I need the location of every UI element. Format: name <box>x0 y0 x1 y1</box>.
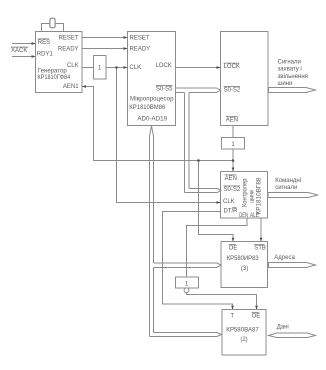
output arrow: data (double headed) <box>269 333 316 338</box>
svg-text:AEN: AEN <box>225 176 237 182</box>
svg-text:Дані: Дані <box>277 325 289 331</box>
output arrow: address <box>269 263 316 268</box>
output arrow: bus arbitration signals <box>269 88 316 93</box>
svg-text:DEN: DEN <box>239 213 248 219</box>
bus arrowhead into controller S0-S2 <box>217 188 221 192</box>
crystal wire right <box>56 24 64 32</box>
arrowhead controller AEN (down) <box>232 168 235 172</box>
wire CLK generator to buffer box <box>82 67 94 69</box>
svg-text:КР1810ВМ86: КР1810ВМ86 <box>129 105 166 111</box>
svg-text:ОЕ: ОЕ <box>252 313 261 319</box>
wire AEN net horizontal <box>199 160 234 162</box>
arrowhead controller CLK <box>217 201 221 204</box>
inverter box 1 (DEN) <box>176 277 199 288</box>
bus AD vertical <box>149 136 151 337</box>
bus bottom to transceiver <box>150 336 218 338</box>
svg-text:1: 1 <box>231 142 235 148</box>
bus controller block KR1810VG88 <box>221 172 268 219</box>
svg-text:RESET: RESET <box>59 36 79 42</box>
junction dot CLK <box>115 66 117 68</box>
wire arbiter AEN down to inverter <box>232 126 234 138</box>
svg-text:Сигнали: Сигнали <box>278 60 301 66</box>
arrowhead CPU CLK <box>124 66 128 69</box>
output arrow: command signals <box>268 193 318 198</box>
bus S0 branch vertical <box>184 93 186 193</box>
svg-text:1: 1 <box>185 281 189 287</box>
svg-text:RES: RES <box>38 40 50 46</box>
arrowhead CPU RESET <box>124 36 128 39</box>
wire inverter bubble to transceiver OE <box>187 293 257 310</box>
wire AEN1 from generator right down to AEN net <box>82 87 199 161</box>
arrowhead AEN1 (points left into generator) <box>82 85 86 88</box>
arrowhead transceiver OE (down) <box>255 306 258 310</box>
arrowhead latch OE (down) <box>232 238 235 242</box>
bus S0 branch horizontal into controller <box>189 187 217 189</box>
bus branch to latch <box>154 262 218 264</box>
svg-text:Адреса: Адреса <box>274 255 295 261</box>
svg-text:STB: STB <box>254 245 266 251</box>
inverter box 1 (arbiter AEN) <box>222 138 245 150</box>
svg-text:КР1810ВГ88: КР1810ВГ88 <box>256 177 262 215</box>
bus S0-S5 CPU to arbiter: band <box>176 87 217 89</box>
wire XACK upper stub to RES <box>12 43 36 45</box>
generator block KR1810GF84 <box>36 32 83 93</box>
svg-text:(3): (3) <box>241 266 248 272</box>
svg-text:шини: шини <box>278 81 293 87</box>
svg-text:RDY1: RDY1 <box>37 52 54 58</box>
svg-text:сигнали: сигнали <box>275 185 297 191</box>
wire DEN down-left to inverter <box>187 218 248 277</box>
svg-text:CLK: CLK <box>223 199 235 205</box>
wire RESET generator to CPU <box>82 37 128 39</box>
arrowhead CPU READY <box>124 47 128 50</box>
svg-text:LOCK: LOCK <box>224 64 240 70</box>
junction dot AEN net left <box>197 159 200 162</box>
wire CLK buffer to CPU <box>106 67 128 69</box>
wire XACK lower stub to RDY1 <box>12 56 36 58</box>
svg-text:READY: READY <box>58 47 79 53</box>
arrowhead arbiter LOCK <box>217 66 221 69</box>
svg-text:AEN: AEN <box>226 117 238 123</box>
wire inverter to AEN net and controller AEN <box>232 149 234 172</box>
svg-text:DT/R: DT/R <box>224 209 239 215</box>
svg-text:AEN1: AEN1 <box>63 84 79 90</box>
bus arrowhead into transceiver <box>217 333 221 337</box>
wire DT/R from controller to transceiver T <box>163 212 233 310</box>
svg-text:CLK: CLK <box>130 65 142 71</box>
svg-text:1: 1 <box>98 65 102 71</box>
wire ALE down to latch STB <box>260 218 262 242</box>
address latch block KR580IR83 <box>221 242 268 288</box>
bus arrowhead into latch <box>217 263 221 267</box>
svg-text:S0-S2: S0-S2 <box>224 87 241 93</box>
wire READY generator to CPU <box>82 48 128 50</box>
svg-text:КР1810ГФ84: КР1810ГФ84 <box>37 75 70 81</box>
svg-text:Командні: Командні <box>275 178 301 184</box>
svg-text:КР580ВА87: КР580ВА87 <box>226 328 259 334</box>
svg-text:XACK: XACK <box>11 48 27 54</box>
arrowhead RES <box>32 42 36 45</box>
svg-text:RESET: RESET <box>130 35 150 41</box>
svg-text:Генератор: Генератор <box>38 68 68 74</box>
svg-text:AD0-AD19: AD0-AD19 <box>137 117 167 123</box>
inverter bubble <box>184 288 189 293</box>
svg-text:READY: READY <box>130 46 151 52</box>
svg-text:T: T <box>230 313 234 319</box>
svg-text:Мікропроцесор: Мікропроцесор <box>130 97 174 103</box>
arbiter block <box>221 32 269 126</box>
microprocessor block KR1810VM86 <box>128 32 176 126</box>
svg-text:ОЕ: ОЕ <box>229 245 238 251</box>
wire LOCK CPU to arbiter <box>176 67 221 69</box>
svg-text:S0-S5: S0-S5 <box>156 87 173 93</box>
svg-text:(2): (2) <box>240 337 247 343</box>
svg-text:звільнення: звільнення <box>278 74 308 80</box>
buffer box 1 (clock) <box>94 56 107 80</box>
junction dot AEN net right <box>232 159 235 162</box>
crystal wire left <box>42 24 50 32</box>
svg-text:Контролер: Контролер <box>243 178 249 207</box>
arrowhead transceiver T (down) <box>231 306 234 310</box>
svg-text:КР580ИР83: КР580ИР83 <box>227 256 260 262</box>
arrowhead RDY1 <box>32 55 36 58</box>
svg-text:S0-S2: S0-S2 <box>224 187 241 193</box>
wire AEN net down to latch OE <box>199 161 234 242</box>
data transceiver block KR580VA87 <box>222 310 266 356</box>
bus arrowhead into arbiter S0-S2 <box>217 88 221 93</box>
bus AD arrow up into CPU <box>150 126 154 136</box>
arrowhead latch STB (down) <box>260 238 263 242</box>
svg-text:захвату і: захвату і <box>278 67 302 73</box>
svg-text:шини: шини <box>250 190 256 203</box>
svg-text:CLK: CLK <box>67 63 79 69</box>
wire CLK branch down to controller <box>117 68 221 203</box>
svg-text:LOCK: LOCK <box>155 63 171 69</box>
quartz crystal body <box>50 18 55 28</box>
